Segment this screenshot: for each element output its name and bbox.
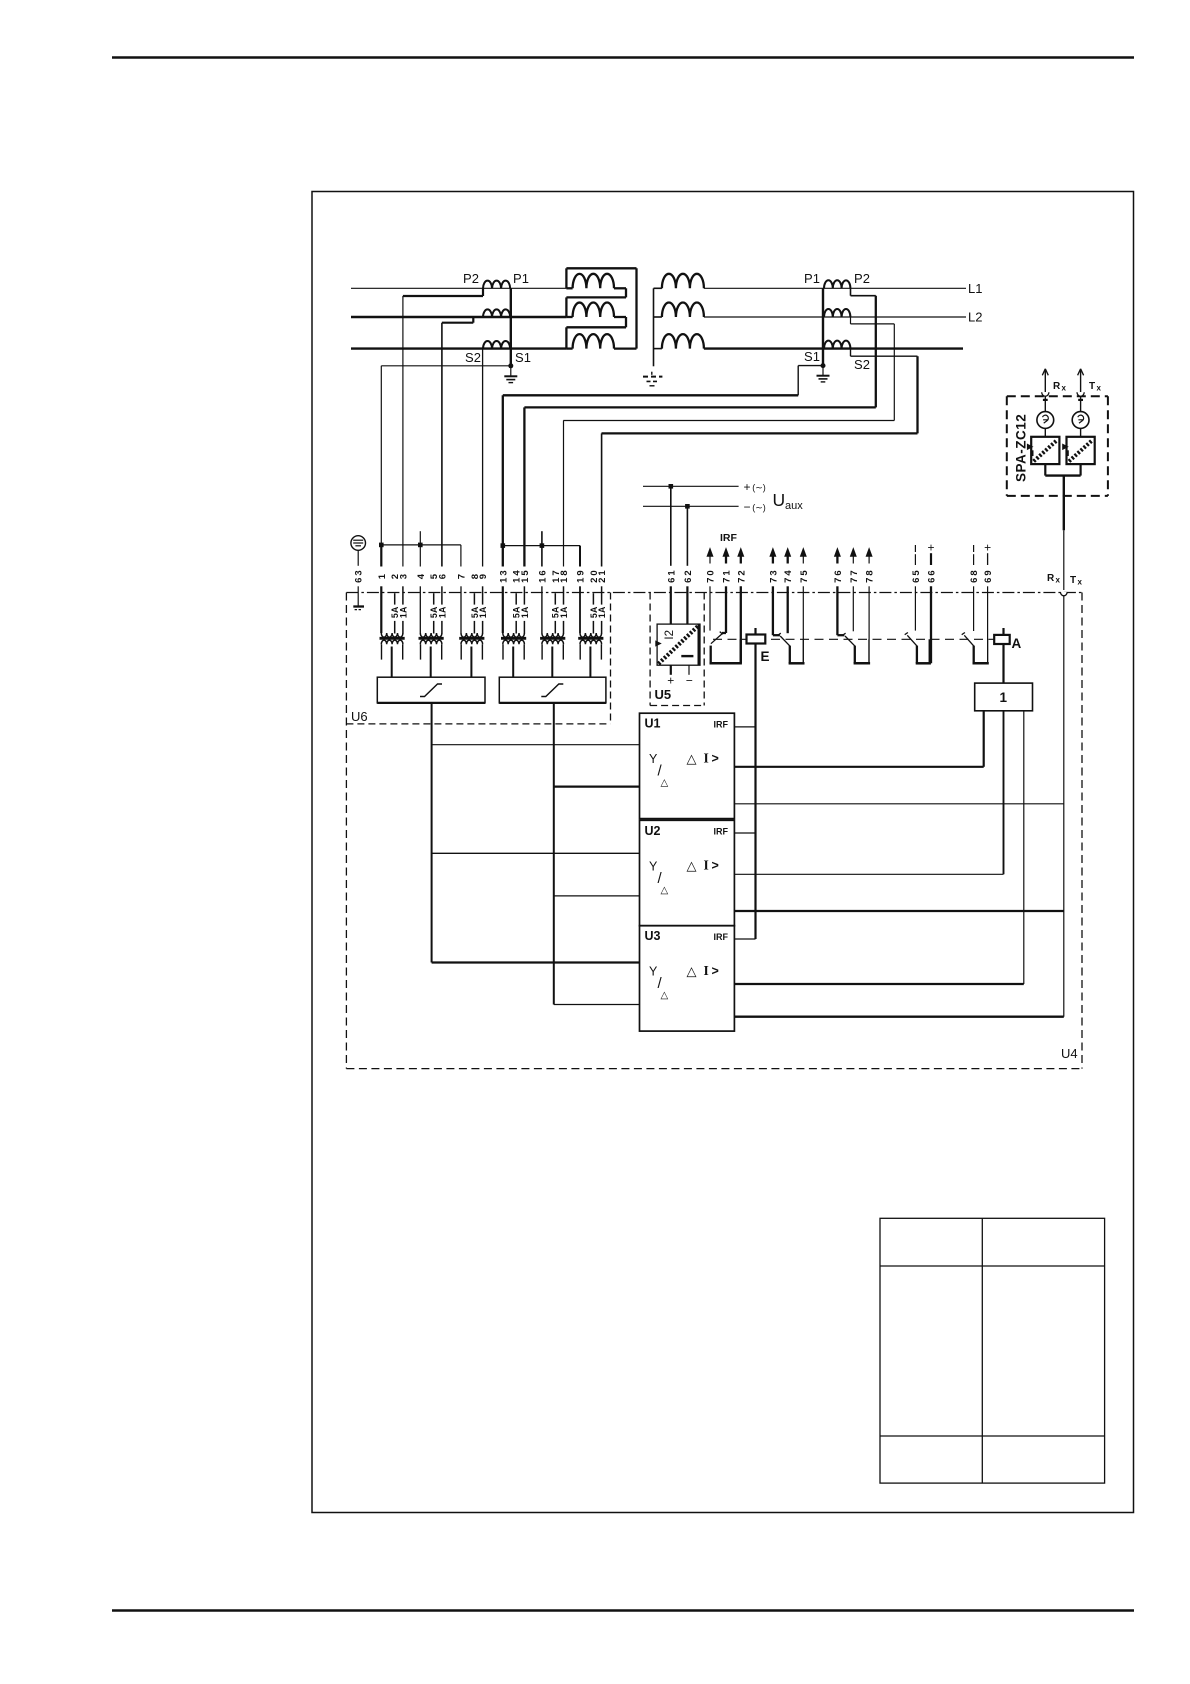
svg-text:70: 70 [706,568,717,583]
svg-text:P2: P2 [854,271,870,286]
svg-text:T: T [1070,575,1076,586]
svg-text:66: 66 [927,568,938,583]
svg-text:+: + [743,480,750,494]
svg-text:1: 1 [1000,690,1008,705]
svg-text:SPA-ZC12: SPA-ZC12 [1014,414,1029,482]
svg-text:△: △ [687,751,697,766]
svg-text:77: 77 [849,568,860,583]
svg-text:75: 75 [799,568,810,583]
svg-text:U1: U1 [645,717,661,731]
svg-text:x: x [1078,578,1083,587]
svg-text:P1: P1 [513,271,529,286]
svg-text:I2: I2 [664,630,676,640]
svg-text:x: x [1097,384,1102,393]
svg-text:(∼): (∼) [752,503,766,513]
svg-text:1A: 1A [478,606,488,618]
svg-text:21: 21 [597,568,608,583]
svg-text:S2: S2 [854,357,870,372]
svg-text:I: I [704,858,709,873]
svg-text:>: > [712,859,719,873]
svg-text:(∼): (∼) [752,483,766,493]
svg-text:−: − [686,674,693,688]
svg-text:L2: L2 [968,310,982,325]
svg-text:1A: 1A [398,606,408,618]
svg-text:16: 16 [537,568,548,583]
svg-text:>: > [712,752,719,766]
svg-text:I: I [704,963,709,978]
svg-text:U: U [773,490,786,510]
svg-text:9: 9 [478,572,489,579]
svg-text:19: 19 [576,568,587,583]
svg-text:+: + [984,541,991,555]
svg-text:6: 6 [437,572,448,579]
svg-text:73: 73 [768,568,779,583]
svg-text:U5: U5 [655,687,672,702]
svg-text:S1: S1 [804,349,820,364]
svg-text:S2: S2 [465,350,481,365]
svg-text:71: 71 [722,568,733,583]
svg-text:U6: U6 [351,709,368,724]
svg-text:E: E [761,649,770,664]
svg-text:1A: 1A [520,606,530,618]
svg-text:U3: U3 [645,929,661,943]
svg-text:△: △ [687,964,697,979]
svg-text:65: 65 [911,568,922,583]
svg-text:T: T [1089,381,1095,392]
svg-text:IRF: IRF [714,827,729,837]
svg-text:1: 1 [377,572,388,579]
svg-text:1A: 1A [437,606,447,618]
svg-text:x: x [1056,576,1061,585]
svg-text:P1: P1 [804,271,820,286]
svg-text:R: R [1053,381,1061,392]
svg-text:15: 15 [520,568,531,583]
svg-text:74: 74 [783,568,794,583]
svg-text:IRF: IRF [714,932,729,942]
svg-text:>: > [712,964,719,978]
svg-text:P2: P2 [463,271,479,286]
svg-text:18: 18 [559,568,570,583]
svg-text:68: 68 [969,568,980,583]
svg-text:62: 62 [683,568,694,583]
svg-text:1A: 1A [597,606,607,618]
svg-text:x: x [1062,384,1067,393]
svg-text:R: R [1047,573,1055,584]
svg-text:76: 76 [833,568,844,583]
svg-text:78: 78 [865,568,876,583]
svg-text:61: 61 [666,568,677,583]
svg-text:△: △ [687,858,697,873]
svg-text:aux: aux [785,500,803,512]
svg-text:+: + [927,541,934,555]
svg-text:3: 3 [398,572,409,579]
svg-text:S1: S1 [515,350,531,365]
svg-text:△: △ [661,990,669,1001]
svg-text:7: 7 [457,572,468,579]
svg-text:U2: U2 [645,824,661,838]
svg-text:U4: U4 [1061,1046,1078,1061]
svg-text:72: 72 [736,568,747,583]
svg-text:−: − [743,500,750,514]
svg-text:IRF: IRF [720,532,738,544]
svg-text:△: △ [661,885,669,896]
svg-text:IRF: IRF [714,719,729,729]
svg-text:△: △ [661,778,669,789]
svg-text:69: 69 [983,568,994,583]
svg-text:13: 13 [498,568,509,583]
svg-text:L1: L1 [968,281,982,296]
svg-text:63: 63 [354,568,365,583]
svg-text:A: A [1012,636,1022,651]
svg-text:4: 4 [416,572,427,579]
svg-text:I: I [704,751,709,766]
svg-text:+: + [667,674,674,688]
svg-text:1A: 1A [559,606,569,618]
